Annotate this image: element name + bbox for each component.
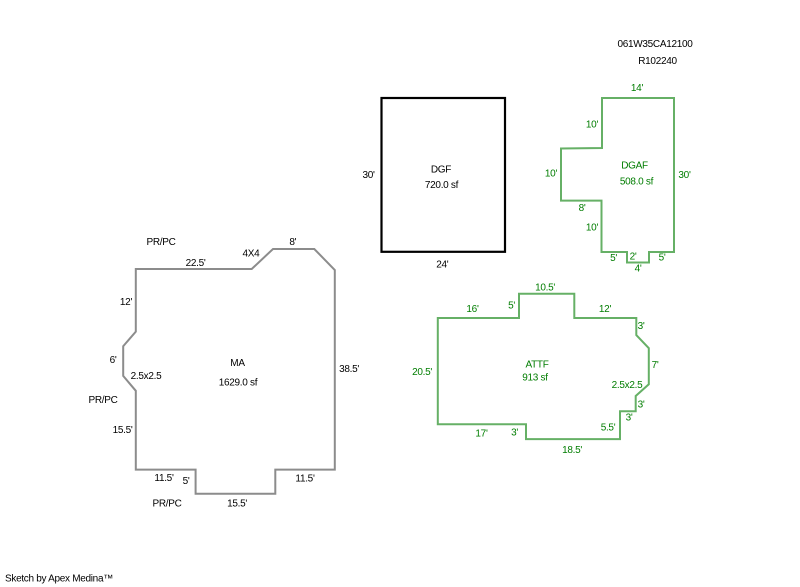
svg-text:3': 3' [638,400,645,411]
svg-text:PR/PC: PR/PC [152,499,181,510]
svg-text:4': 4' [635,264,642,275]
svg-text:7': 7' [652,360,659,371]
svg-text:30': 30' [678,170,691,181]
svg-text:24': 24' [436,260,449,271]
svg-text:5': 5' [659,253,666,264]
svg-text:508.0 sf: 508.0 sf [620,177,654,188]
svg-text:ATTF: ATTF [525,360,548,371]
svg-text:720.0 sf: 720.0 sf [425,180,459,191]
svg-text:3': 3' [638,321,645,332]
svg-text:18.5': 18.5' [562,445,582,456]
svg-text:8': 8' [579,203,586,214]
svg-text:MA: MA [230,358,245,369]
svg-text:6': 6' [110,355,117,366]
svg-text:11.5': 11.5' [154,473,174,484]
svg-text:30': 30' [363,170,376,181]
svg-text:12': 12' [599,304,612,315]
svg-text:20.5': 20.5' [412,367,432,378]
svg-text:PR/PC: PR/PC [88,395,117,406]
svg-text:5': 5' [183,476,190,487]
svg-text:Sketch by Apex Medina™: Sketch by Apex Medina™ [5,574,113,585]
svg-text:2.5x2.5: 2.5x2.5 [612,380,643,391]
svg-text:15.5': 15.5' [113,425,133,436]
svg-text:R102240: R102240 [638,56,677,67]
svg-text:4X4: 4X4 [243,249,261,260]
svg-text:17': 17' [475,429,488,440]
svg-text:3': 3' [511,428,518,439]
svg-text:DGF: DGF [431,165,451,176]
svg-text:061W35CA12100: 061W35CA12100 [617,39,693,50]
svg-text:5.5': 5.5' [601,423,616,434]
svg-text:913 sf: 913 sf [522,373,548,384]
svg-text:2': 2' [630,252,637,263]
svg-text:22.5': 22.5' [186,258,206,269]
svg-text:1629.0 sf: 1629.0 sf [219,378,258,389]
svg-text:10.5': 10.5' [535,283,555,294]
svg-text:10': 10' [586,120,599,131]
svg-text:10': 10' [545,169,558,180]
svg-text:10': 10' [586,223,599,234]
svg-text:8': 8' [289,237,296,248]
svg-text:DGAF: DGAF [621,161,648,172]
svg-text:15.5': 15.5' [227,499,247,510]
svg-text:16': 16' [466,304,479,315]
svg-text:2.5x2.5: 2.5x2.5 [131,371,162,382]
svg-text:38.5': 38.5' [339,364,359,375]
svg-text:12': 12' [120,297,133,308]
svg-text:11.5': 11.5' [295,474,315,485]
svg-text:14': 14' [631,83,644,94]
svg-text:3': 3' [626,413,633,424]
svg-text:5': 5' [508,301,515,312]
svg-text:PR/PC: PR/PC [146,237,175,248]
svg-text:5': 5' [610,253,617,264]
